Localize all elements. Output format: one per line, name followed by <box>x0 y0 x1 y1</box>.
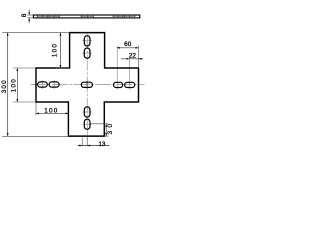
svg-text:100: 100 <box>44 107 57 114</box>
svg-text:300: 300 <box>1 80 8 93</box>
svg-text:13: 13 <box>98 141 106 148</box>
svg-text:60: 60 <box>124 41 132 48</box>
svg-text:100: 100 <box>52 44 59 57</box>
svg-text:100: 100 <box>10 79 17 92</box>
svg-text:22: 22 <box>129 53 137 60</box>
svg-text:8: 8 <box>21 13 28 17</box>
